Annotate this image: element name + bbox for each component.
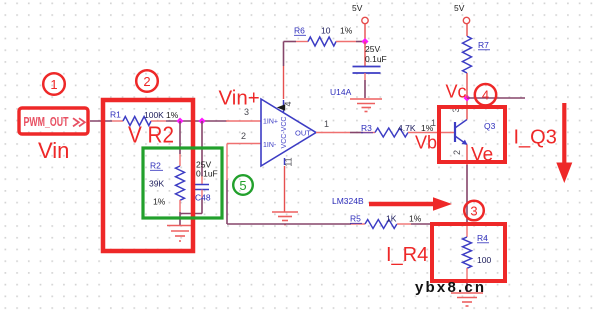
svg-text:R1: R1: [110, 110, 121, 120]
annotation box 1 (around PWM_OUT): [19, 108, 88, 134]
resistor R2: [176, 166, 185, 200]
ground symbol below R4: [451, 293, 483, 306]
annotation circle 4: [475, 84, 496, 105]
wire R2 branch vertical: [179, 121, 181, 154]
wire feedback R5 run: [227, 223, 351, 225]
svg-text:C48: C48: [195, 193, 211, 203]
svg-text:OUT: OUT: [295, 129, 311, 138]
svg-text:Vc: Vc: [446, 82, 467, 102]
op-amp pin 11 inner stub: [284, 158, 286, 165]
svg-text:1IN-: 1IN-: [263, 142, 277, 149]
junction node C48 tap: [198, 117, 205, 124]
opamp U14A pin 3 stub: [226, 120, 261, 122]
opamp output pin 1 stub: [316, 132, 350, 134]
svg-text:VCC-VCC: VCC-VCC: [281, 117, 288, 149]
resistor R4 pin stub top: [466, 226, 468, 237]
svg-text:11: 11: [284, 157, 294, 166]
resistor R2 pin stub top: [179, 154, 181, 166]
svg-text:Vin+: Vin+: [219, 87, 260, 110]
wire C48 branch vertical: [201, 121, 203, 176]
svg-text:1%: 1%: [166, 110, 179, 120]
power symbol 5V (bypass node): [362, 17, 368, 23]
svg-text:4.7K: 4.7K: [398, 123, 416, 133]
svg-text:2: 2: [143, 74, 150, 89]
junction node 5V bypass: [361, 38, 368, 45]
resistor R7: [463, 36, 472, 73]
capacitor C48: [195, 185, 209, 190]
svg-text:100K: 100K: [144, 110, 164, 120]
annotation circle 1: [43, 73, 65, 95]
svg-text:R5: R5: [350, 214, 361, 224]
junction node Vc: [463, 94, 470, 101]
resistor R7 pin stub bottom: [466, 73, 468, 98]
svg-text:5: 5: [239, 178, 246, 193]
annotation green box (around R2 C48): [143, 148, 222, 218]
wire 5V node down to capacitor: [364, 42, 366, 67]
svg-text:5V: 5V: [454, 3, 465, 13]
wire opamp pin 11 to ground: [284, 166, 286, 212]
svg-text:100: 100: [477, 255, 491, 265]
resistor R7 pin stub top: [466, 24, 468, 36]
wire VCC down to opamp pin 4: [283, 42, 285, 67]
wire C48 to R2 bottom tie: [180, 213, 202, 215]
transistor Q3 emitter diagonal with arrow: [455, 136, 467, 145]
svg-text:39K: 39K: [149, 179, 164, 189]
resistor R3: [375, 128, 408, 137]
resistor R6 pin stub right: [336, 41, 356, 43]
power symbol 5V (R7): [463, 17, 469, 23]
svg-text:ybx8.cn: ybx8.cn: [415, 279, 486, 296]
wire R6 to 5V node: [356, 41, 365, 43]
wire R4 to ground: [466, 281, 468, 292]
wire port to R1: [90, 120, 112, 122]
wire R2 bottom to ground: [179, 212, 181, 225]
svg-text:R3: R3: [361, 123, 372, 133]
annotation arrow LM324B: [369, 202, 435, 206]
op-amp pin 4 inner stub with arrow: [283, 100, 285, 112]
resistor R6 left wire from VCC corner: [284, 41, 297, 43]
annotation box Q3: [439, 107, 505, 162]
resistor R4 pin stub bottom: [466, 268, 468, 281]
svg-text:R4: R4: [477, 233, 488, 243]
svg-text:3: 3: [470, 204, 477, 219]
op-amp U14A triangle: [261, 99, 316, 166]
transistor Q3 base bar: [454, 122, 456, 142]
svg-text:I_R4: I_R4: [386, 244, 428, 266]
resistor R1 pin stub left: [112, 120, 123, 122]
resistor R2 pin stub bottom: [179, 200, 181, 212]
svg-text:Vin: Vin: [38, 138, 69, 163]
svg-text:0.1uF: 0.1uF: [196, 169, 218, 179]
resistor R5 pin stub left: [351, 223, 365, 225]
svg-text:R2: R2: [150, 161, 161, 171]
annotation box 2 (around R1 R2): [103, 100, 193, 251]
ground symbol bypass capacitor: [350, 99, 382, 112]
resistor R5: [365, 220, 397, 229]
bypass capacitor: [353, 67, 381, 74]
resistor R1 pin stub right: [151, 120, 166, 122]
ground symbol below R2: [167, 226, 193, 242]
svg-text:1%: 1%: [153, 197, 166, 207]
svg-text:1: 1: [324, 119, 329, 129]
annotation circle 3: [464, 201, 484, 221]
svg-text:5V: 5V: [352, 3, 363, 13]
annotation arrow I_Q3: [562, 103, 566, 164]
wire emitter down to R4: [466, 145, 468, 166]
svg-text:2: 2: [452, 150, 462, 155]
capacitor C48 pin stub top: [201, 176, 203, 184]
wire R5 to emitter node: [411, 223, 467, 225]
svg-text:2: 2: [241, 131, 246, 141]
wire output to R3: [350, 132, 363, 134]
svg-text:Vb: Vb: [415, 133, 437, 153]
resistor R3 pin stub left: [363, 132, 375, 134]
ground symbol opamp pin 11: [272, 212, 298, 225]
svg-text:0.1uF: 0.1uF: [365, 54, 387, 64]
resistor R6: [308, 37, 336, 46]
junction node R2 tap: [176, 117, 183, 124]
resistor R5 pin stub right: [397, 223, 411, 225]
capacitor C48 pin stub bottom: [201, 190, 203, 199]
resistor R4: [463, 237, 472, 268]
svg-text:1IN+: 1IN+: [263, 119, 278, 126]
resistor R1: [123, 117, 151, 126]
resistor R3 pin stub right / wire to Q3 base: [408, 132, 455, 134]
svg-text:1: 1: [431, 118, 436, 128]
wire capacitor to ground: [364, 73, 366, 80]
annotation box R4: [432, 224, 505, 281]
svg-text:4: 4: [482, 88, 489, 103]
annotation green circle 5: [233, 175, 253, 195]
resistor R6 pin stub left: [296, 41, 308, 43]
wire feedback vertical from pin 2: [226, 144, 228, 181]
svg-text:1%: 1%: [340, 26, 353, 36]
svg-text:Q3: Q3: [484, 121, 496, 131]
wire R1 to opamp input: [166, 120, 227, 122]
wire Vc node to right: [467, 97, 525, 99]
svg-text:10: 10: [321, 26, 331, 36]
svg-text:1: 1: [50, 77, 57, 92]
wire collector up to Vc node: [466, 98, 468, 120]
svg-text:LM324B: LM324B: [332, 196, 364, 206]
wire C48 bottom: [201, 198, 203, 214]
svg-text:1%: 1%: [409, 214, 422, 224]
svg-text:4: 4: [283, 101, 293, 106]
opamp U14A pin 2 stub: [227, 143, 261, 145]
svg-text:25V: 25V: [365, 44, 380, 54]
svg-text:R6: R6: [294, 26, 305, 36]
svg-text:1K: 1K: [386, 214, 397, 224]
svg-text:V R2: V R2: [128, 122, 174, 148]
annotation circle 2: [136, 70, 158, 92]
svg-text:PWM_OUT: PWM_OUT: [24, 115, 69, 129]
svg-text:I_Q3: I_Q3: [514, 127, 557, 149]
svg-text:R7: R7: [478, 40, 489, 50]
transistor Q3 collector diagonal: [455, 120, 467, 129]
svg-text:Ve: Ve: [471, 145, 493, 166]
svg-text:U14A: U14A: [330, 87, 352, 97]
